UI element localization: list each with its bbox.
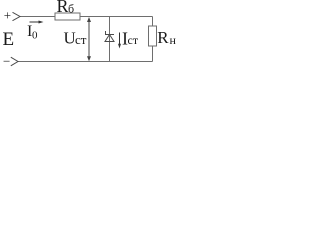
svg-text:б: б [68, 2, 74, 16]
svg-text:0: 0 [32, 30, 38, 42]
svg-text:−: − [3, 54, 10, 69]
svg-text:R: R [157, 28, 169, 47]
svg-text:+: + [4, 8, 11, 23]
svg-text:U: U [64, 29, 76, 48]
svg-text:ст: ст [75, 32, 87, 47]
svg-text:R: R [57, 0, 69, 16]
svg-text:ст: ст [128, 33, 139, 47]
svg-text:н: н [170, 33, 177, 47]
svg-text:E: E [3, 29, 15, 50]
